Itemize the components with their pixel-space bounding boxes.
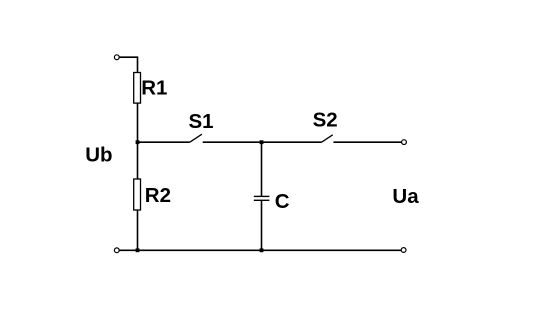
capacitor C top lead xyxy=(261,142,263,196)
bottom rail wire xyxy=(119,249,401,251)
svg-text:S1: S1 xyxy=(189,110,214,133)
wire S2 to terminal top-right xyxy=(333,141,401,143)
node C top junction xyxy=(260,140,264,144)
capacitor C bottom plate xyxy=(254,199,270,201)
wire top-left horizontal xyxy=(119,56,137,58)
resistor R2 xyxy=(134,179,141,210)
terminal top-right (Ua output +) xyxy=(402,140,407,145)
terminal bottom-right (Ua output -) xyxy=(401,248,406,253)
wire S1 to node C xyxy=(203,141,322,143)
capacitor C bottom lead xyxy=(261,200,263,250)
wire node Ub to S1 xyxy=(138,141,190,143)
svg-text:S2: S2 xyxy=(313,108,338,131)
svg-text:Ua: Ua xyxy=(392,185,419,208)
junction bottom-left xyxy=(136,248,140,252)
switch S2 blade xyxy=(322,135,333,142)
wire R1 to node Ub xyxy=(137,103,139,142)
terminal top-left (Ub input +) xyxy=(114,55,119,60)
svg-text:C: C xyxy=(275,190,290,213)
resistor R1 xyxy=(134,73,141,104)
switch S1 blade xyxy=(190,134,202,142)
wire node Ub to R2 xyxy=(137,142,139,179)
svg-text:R2: R2 xyxy=(145,184,171,207)
wire R2 to bottom rail xyxy=(137,210,139,250)
terminal bottom-left (Ub input -) xyxy=(114,248,119,253)
node Ub junction xyxy=(136,140,140,144)
capacitor C top plate xyxy=(254,195,270,197)
svg-text:R1: R1 xyxy=(141,76,167,99)
wire top-left vertical to R1 xyxy=(137,56,139,72)
svg-text:Ub: Ub xyxy=(85,143,112,166)
node C bottom junction xyxy=(260,248,264,252)
